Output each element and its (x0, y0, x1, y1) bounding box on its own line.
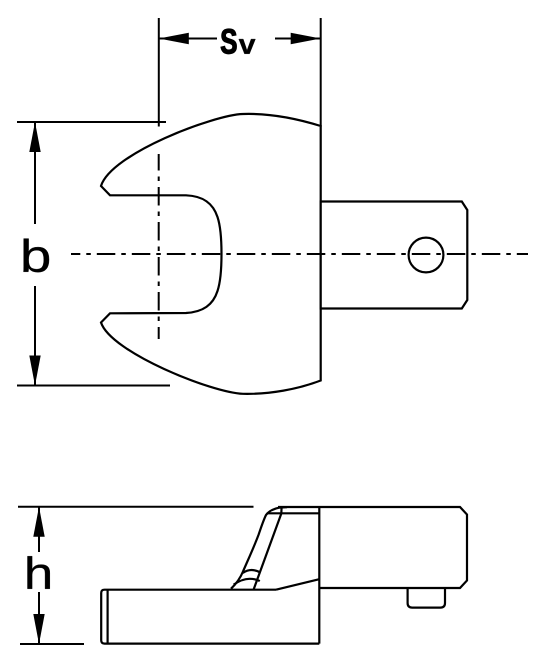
horizontal center line (top view) (71, 253, 528, 255)
wrench head outline (top view) (101, 114, 321, 394)
neck upper fillet arc (243, 570, 260, 573)
Sv arrow right (291, 33, 321, 44)
h arrow up (33, 507, 44, 537)
neck second top line (268, 512, 319, 514)
h top extension line (18, 506, 254, 508)
b dimension bottom extension line (17, 385, 170, 387)
label b (24, 239, 50, 273)
neck right slope line (254, 514, 282, 590)
body left edge (318, 507, 320, 644)
h dimension line upper segment (38, 507, 40, 552)
label Sv : letter S (221, 29, 236, 54)
hole in shank (409, 238, 444, 273)
b arrow up (29, 122, 40, 152)
b dimension line lower segment (34, 286, 36, 386)
label Sv : letter v (239, 39, 256, 54)
body (side view) (278, 507, 467, 588)
Sv right extension line (320, 18, 322, 127)
b dimension top extension line (17, 121, 166, 123)
label h (28, 556, 50, 589)
vertical center line (jaw) (158, 154, 160, 339)
h bottom extension line (20, 643, 84, 645)
head bar (side view) (101, 590, 319, 644)
b dimension line upper segment (34, 122, 36, 224)
bottom tab (408, 588, 445, 608)
Sv arrow left (159, 33, 189, 44)
neck slope top tick (280, 507, 283, 514)
Sv left extension line (158, 18, 160, 127)
head bar end cap line (106, 590, 108, 644)
h dimension line lower segment (38, 592, 40, 644)
h arrow down (33, 614, 44, 644)
Sv dimension line right segment (275, 38, 321, 40)
neck left silhouette (231, 507, 287, 589)
shank (top view) (321, 202, 468, 309)
b arrow down (29, 356, 40, 386)
Sv dimension line left segment (159, 38, 217, 40)
head to body ramp diagonal (276, 579, 319, 590)
neck lower fillet arc (234, 579, 260, 585)
